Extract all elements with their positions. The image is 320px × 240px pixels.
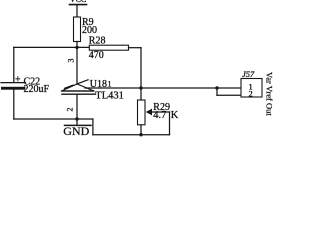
svg-text:200: 200 <box>82 25 97 36</box>
svg-text:2: 2 <box>66 108 75 112</box>
ground symbol <box>63 119 91 138</box>
svg-text:470: 470 <box>89 50 104 61</box>
svg-text:3: 3 <box>67 59 76 63</box>
wiper wire <box>151 111 170 113</box>
bottom rail A wire <box>14 118 93 120</box>
wire pin 1 stub <box>217 87 241 89</box>
svg-text:J57: J57 <box>242 69 255 79</box>
node R29 bottom junction dot <box>139 133 142 136</box>
resistor R29 (trimmer) <box>138 100 146 125</box>
resistor R28 <box>89 45 128 50</box>
connector J57 <box>241 79 262 98</box>
svg-text:2: 2 <box>249 88 253 98</box>
trimmer wiper arrow <box>146 109 152 116</box>
svg-text:Var Vref Out: Var Vref Out <box>264 72 274 116</box>
node connector junction dot <box>215 86 218 89</box>
wire junction to TL431 cathode <box>76 47 78 84</box>
power symbol VCC (label cut off at top) <box>70 0 87 5</box>
wire ref node to R29 <box>140 88 142 100</box>
wire R9 to junction <box>76 42 78 48</box>
capacitor C22 <box>1 75 50 95</box>
op-amp U18 TL431 <box>62 80 96 94</box>
wire R28 right to corner <box>129 47 142 49</box>
node junction dot under R9 <box>75 46 78 49</box>
wire TL431 anode to ground rail <box>76 94 78 119</box>
ref wire TL431 to connector <box>85 87 217 89</box>
left rail upper wire <box>13 47 15 82</box>
svg-text:220uF: 220uF <box>24 84 50 95</box>
svg-text:1: 1 <box>108 80 112 89</box>
wire corner down to ref node <box>140 48 142 88</box>
svg-text:GND: GND <box>63 124 89 138</box>
svg-text:+: + <box>15 75 21 86</box>
svg-text:K: K <box>171 110 179 121</box>
top rail wire <box>14 46 90 48</box>
bottom rail B wire <box>93 134 170 136</box>
wire pin 2 stub <box>217 94 241 96</box>
wire connector stub vertical <box>216 88 218 95</box>
svg-text:4.7: 4.7 <box>153 110 166 121</box>
left rail lower wire <box>13 90 15 119</box>
svg-text:VCC: VCC <box>70 0 86 4</box>
resistor R9 <box>74 17 81 42</box>
wire power bar to R9 <box>76 5 78 17</box>
wire R29 bottom to rail <box>140 125 142 135</box>
ground junction dot <box>75 117 78 120</box>
svg-text:TL431: TL431 <box>95 90 124 101</box>
step wire down <box>92 119 94 135</box>
node ref junction dot <box>139 86 142 89</box>
